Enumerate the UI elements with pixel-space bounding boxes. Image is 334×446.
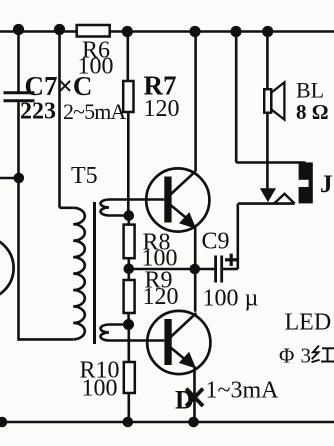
wire bottom rail <box>0 421 334 424</box>
wire jack contact baseline <box>238 202 295 205</box>
node emitter junction <box>190 264 201 275</box>
wire C9 right lead vertical <box>237 204 240 269</box>
wire top rail <box>0 30 334 33</box>
svg-text:C7×C: C7×C <box>25 71 93 101</box>
wire left branch C7 lower <box>17 101 20 341</box>
wire C9 right lead horizontal <box>223 268 238 271</box>
svg-text:8 Ω: 8 Ω <box>296 100 329 124</box>
wire left branch C7 upper <box>17 32 20 93</box>
wire speaker branch <box>266 32 269 191</box>
transistor partial at left edge <box>0 236 14 299</box>
resistor R6 <box>77 25 110 37</box>
resistor R8 <box>124 225 135 259</box>
wire Q1 base lead <box>109 198 164 201</box>
capacitor C7 <box>4 93 35 101</box>
node left stub <box>13 173 24 184</box>
node bottom rail left edge <box>0 417 7 428</box>
capacitor C9 <box>216 254 238 283</box>
svg-text:223: 223 <box>20 99 56 125</box>
wire winding upper to node <box>109 214 129 217</box>
wire stub to left edge <box>0 177 19 180</box>
jack spring contact <box>274 194 295 204</box>
node bottom Q2 emitter <box>188 417 199 428</box>
jack arrow contact <box>261 189 275 201</box>
wire Q1 collector vertical <box>194 32 197 172</box>
wire node to R9 <box>128 269 131 281</box>
wire Q2 base lead <box>109 339 164 342</box>
wire second branch from rail down <box>58 32 61 208</box>
transformer T5 primary winding <box>73 208 85 340</box>
svg-text:100: 100 <box>82 376 118 402</box>
svg-text:D: D <box>175 386 194 415</box>
LED marker D <box>186 389 203 406</box>
wire R10 to bottom rail <box>128 393 131 422</box>
node R8-R9 junction <box>124 264 135 275</box>
node F <box>262 26 273 37</box>
resistor R10 <box>124 362 135 393</box>
node D <box>189 26 200 37</box>
node winding lower / R9-R10 <box>123 319 134 330</box>
wire transformer bottom lead <box>19 338 74 341</box>
transistor Q1 <box>146 168 209 231</box>
resistor R7 <box>123 81 133 112</box>
svg-text:Φ: Φ <box>279 344 294 368</box>
jack J plug body <box>299 162 313 203</box>
node bottom R10 <box>123 417 134 428</box>
svg-text:120: 120 <box>144 96 180 122</box>
transistor Q2 <box>147 311 210 374</box>
wire Q1 emitter to node to Q2 collector <box>194 227 197 312</box>
resistor R9 <box>124 280 135 313</box>
wire node to R10 <box>128 325 131 363</box>
wire transformer top lead <box>60 207 74 210</box>
wire node to R8 <box>128 216 131 225</box>
speaker BL <box>264 82 284 119</box>
svg-text:2~5mA: 2~5mA <box>63 99 126 124</box>
wire R7 to node <box>127 112 130 216</box>
wire jack branch horizontal <box>236 161 305 164</box>
wire R9 to node <box>127 313 130 325</box>
svg-text:1~3mA: 1~3mA <box>206 378 280 404</box>
wire jack branch vertical <box>235 32 238 163</box>
label hong (red) glyph drawn <box>312 346 334 363</box>
svg-text:T5: T5 <box>71 163 98 189</box>
wire winding lower to node <box>109 323 129 326</box>
node winding upper / R7-R8 <box>124 210 135 221</box>
wire R7 top lead <box>127 32 130 82</box>
transformer T5 core <box>93 202 96 344</box>
transformer T5 feedback winding upper <box>101 200 110 216</box>
wire R8 to node <box>128 258 131 268</box>
transformer T5 feedback winding lower <box>101 325 110 341</box>
svg-text:J: J <box>320 171 333 198</box>
node A <box>13 24 24 35</box>
svg-text:3: 3 <box>301 344 312 368</box>
svg-text:100 µ: 100 µ <box>203 286 259 312</box>
svg-text:120: 120 <box>143 284 179 310</box>
svg-text:LED: LED <box>285 310 332 336</box>
wire emitter junction horizontal <box>129 268 215 271</box>
node C <box>122 26 133 37</box>
node B <box>54 24 65 35</box>
svg-text:BL: BL <box>296 78 324 103</box>
node E <box>230 26 241 37</box>
wire Q2 emitter to bottom rail <box>193 366 196 422</box>
svg-text:C9: C9 <box>202 229 230 255</box>
